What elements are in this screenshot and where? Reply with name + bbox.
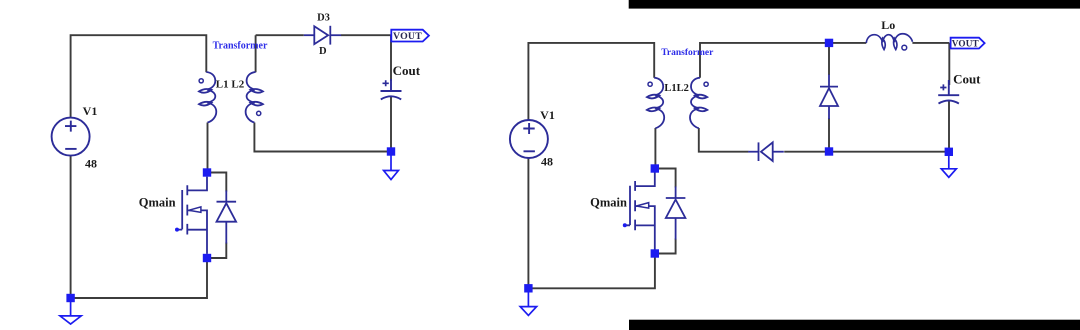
capacitor Cout (right) <box>938 95 959 103</box>
junction: source node (right) <box>651 249 659 257</box>
wire: body diode bottom to source node <box>207 243 226 259</box>
transformer secondary winding L2 (left) <box>246 72 263 123</box>
junction: drain node (right) <box>651 164 659 172</box>
voltage source V1 (left) <box>52 118 90 156</box>
svg-text:VOUT: VOUT <box>393 31 422 42</box>
wire: Cout bottom to return node (right) <box>948 101 950 152</box>
junction: output return node (left) <box>387 147 395 155</box>
svg-text:48: 48 <box>541 154 553 168</box>
wire: Cout top blue lead (left) <box>390 79 392 91</box>
ground symbol under V1 (right) <box>520 291 536 316</box>
black letterbox bar top-right <box>629 0 1080 9</box>
junction: freewheel top node (right) <box>825 39 833 47</box>
wire: secondary winding top to D3 anode <box>256 35 304 72</box>
junction: V1 negative / ground node (left) <box>66 294 74 302</box>
wire: VOUT node down to Cout <box>390 35 392 81</box>
wire: bottom rail right circuit <box>528 254 655 289</box>
wire: body diode bottom to source node (right) <box>655 239 676 254</box>
svg-text:D: D <box>319 46 327 57</box>
svg-text:Cout: Cout <box>393 63 421 78</box>
wire: freewheel diode bottom lead <box>828 118 830 151</box>
svg-text:V1: V1 <box>540 108 555 122</box>
svg-text:48: 48 <box>85 156 97 170</box>
wire: freewheel node to Lo (right) <box>829 42 866 44</box>
ground symbol under V1 (left) <box>60 300 81 324</box>
polarity dot primary (left) <box>199 79 203 83</box>
output port flag VOUT (left) <box>391 30 429 42</box>
capacitor Cout (left) <box>381 91 402 99</box>
output port flag VOUT (right) <box>951 38 985 49</box>
black letterbox bar bottom-right <box>629 320 1080 330</box>
series rectifier diode (right) <box>748 142 784 161</box>
wire: Lo to VOUT corner (right) <box>912 42 949 44</box>
wire: Cout top blue lead (right) <box>948 80 950 95</box>
svg-text:V1: V1 <box>83 104 98 118</box>
wire: V1 top to transformer primary top (right) <box>528 43 654 120</box>
wire: drain node to body diode top (right) <box>655 169 676 188</box>
wire: drain node to body diode top <box>207 173 226 192</box>
junction: source node (left) <box>203 254 211 262</box>
svg-text:VOUT: VOUT <box>952 39 979 49</box>
polarity dot secondary (left) <box>257 111 261 115</box>
wire: secondary bottom to series diode (right) <box>699 128 749 152</box>
svg-text:Lo: Lo <box>881 18 895 32</box>
diode D3 <box>304 26 341 45</box>
svg-text:Cout: Cout <box>953 72 981 87</box>
svg-text:Transformer: Transformer <box>661 48 714 58</box>
voltage source V1 (right) <box>510 120 548 158</box>
ground symbol under Cout (right) <box>941 154 956 177</box>
polarity dot primary (right) <box>648 82 652 86</box>
wire: primary winding bottom to Qmain drain node <box>207 123 209 173</box>
svg-text:L1L2: L1L2 <box>664 83 689 94</box>
transformer secondary winding L2 (right) <box>690 78 707 129</box>
wire: V1 bottom lead <box>70 156 72 298</box>
body diode of Qmain (right) <box>666 187 686 240</box>
wire: D3 cathode to VOUT node <box>341 34 391 36</box>
wire: secondary top to freewheel node (right) <box>700 43 829 78</box>
wire: V1 bottom lead (right) <box>527 158 529 288</box>
wire: Cout bottom to output return node <box>390 97 392 152</box>
polarity dot Lo <box>902 45 907 50</box>
wire: freewheel diode top lead <box>828 43 830 75</box>
wire: bottom rail left circuit <box>71 258 207 298</box>
svg-text:Transformer: Transformer <box>213 41 268 52</box>
wire: secondary bottom return rail <box>254 123 391 152</box>
freewheeling diode (right) <box>820 75 838 120</box>
nmos transistor Qmain (right) <box>625 172 655 249</box>
wire: primary winding bottom to Qmain drain node (right) <box>654 128 656 169</box>
transformer primary winding L1 (right) <box>647 78 664 129</box>
nmos transistor Qmain (left) <box>177 177 207 254</box>
output inductor Lo <box>866 34 912 50</box>
body diode of Qmain (left) <box>217 191 237 244</box>
wire: series diode to freewheel bottom node (right) <box>784 151 949 153</box>
junction: freewheel bottom node (right) <box>825 147 833 155</box>
junction: output return node (right) <box>945 148 953 156</box>
wire: VOUT corner down to Cout (right) <box>948 43 950 85</box>
ground symbol at output return (left) <box>384 154 399 180</box>
svg-text:L1 L2: L1 L2 <box>216 78 245 90</box>
polarity dot secondary (right) <box>704 82 708 86</box>
wire: V1 top to transformer primary top <box>71 35 207 118</box>
svg-text:D3: D3 <box>317 13 330 24</box>
junction: V1 negative node (right) <box>524 284 532 292</box>
transformer primary winding L1 (left) <box>199 72 216 123</box>
junction: drain node (left) <box>203 168 211 176</box>
svg-text:Qmain: Qmain <box>139 195 176 209</box>
svg-text:Qmain: Qmain <box>590 195 627 209</box>
